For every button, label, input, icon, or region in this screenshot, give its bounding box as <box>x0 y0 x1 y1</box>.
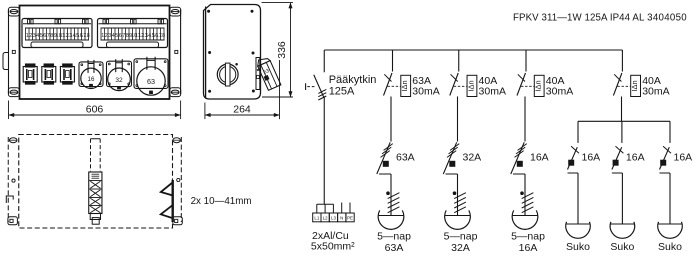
dimension 264 line <box>205 114 280 116</box>
svg-text:18: 18 <box>159 33 165 39</box>
bottom view left hook <box>6 196 13 203</box>
svg-text:16A: 16A <box>582 151 601 163</box>
RCD 3 40A 30mA <box>525 50 527 72</box>
appliance inlet 63A (tilted) <box>256 56 281 91</box>
bottom view screw right <box>177 178 180 181</box>
svg-text:63: 63 <box>147 77 155 86</box>
socket outlet Suko no.3 <box>669 173 671 224</box>
mounting tab bottom-left with slot <box>8 88 19 97</box>
svg-text:8: 8 <box>126 33 129 39</box>
mounting tab top-right with slot <box>170 7 181 16</box>
socket outlet 5-nap 63A <box>390 174 392 216</box>
wire main switch to supply terminals <box>323 97 325 204</box>
svg-text:63A: 63A <box>385 242 404 254</box>
cable entry wedge 1 <box>161 183 173 196</box>
bottom view foot bottom-left <box>8 217 18 225</box>
left side boss <box>3 53 9 70</box>
svg-text:L2: L2 <box>323 216 328 221</box>
DIN window top rail <box>23 23 91 25</box>
svg-text:IΔn: IΔn <box>534 80 543 91</box>
svg-text:336: 336 <box>276 41 288 59</box>
CEE socket 16A <box>79 62 103 87</box>
mounting tab bottom-right with slot <box>170 88 181 97</box>
wire sub-bus drop 1 <box>577 121 579 143</box>
main bus wire <box>324 49 622 51</box>
svg-text:5x50mm²: 5x50mm² <box>311 241 355 253</box>
terminal block body <box>89 172 102 214</box>
svg-text:2x 10—41mm: 2x 10—41mm <box>191 196 252 207</box>
dimension 606 witness lines <box>8 101 10 120</box>
panel socket 3 <box>60 67 74 83</box>
breaker number strip <box>25 27 89 29</box>
enclosure side view outline <box>204 5 261 100</box>
side view screws <box>208 10 210 12</box>
wire sub-bus drop 3 <box>669 121 671 143</box>
terminal block lower stem <box>90 214 100 220</box>
svg-text:IΔn: IΔn <box>630 80 639 91</box>
svg-text:Suko: Suko <box>658 241 682 253</box>
svg-text:30mA: 30mA <box>642 85 669 97</box>
MCB 1-pole 16A no.3 <box>660 147 670 169</box>
main switch Paakytkin 125A <box>314 75 324 98</box>
svg-text:32A: 32A <box>463 151 482 163</box>
svg-text:125A: 125A <box>329 86 355 98</box>
RCD 2 40A 30mA <box>458 50 460 72</box>
panel socket 1 <box>23 67 37 83</box>
cable entry wedge 2 <box>161 205 173 218</box>
svg-text:3404050: 3404050 <box>647 13 687 24</box>
socket outlet 5-nap 32A <box>457 174 459 216</box>
RCD 1 63A 30mA <box>392 50 394 72</box>
panel socket 2 <box>42 67 56 83</box>
enclosure bottom view outline (dashed) <box>19 135 173 229</box>
svg-text:606: 606 <box>86 104 104 116</box>
bottom view foot bottom-right <box>173 217 183 225</box>
side view left wall <box>205 7 207 99</box>
MCB 3-pole 32A <box>443 142 456 174</box>
wire RCD1 to MCB 63A <box>390 97 392 142</box>
svg-text:Suko: Suko <box>566 241 590 253</box>
svg-text:FPKV 311—1W 125A IP44 AL: FPKV 311—1W 125A IP44 AL <box>513 13 645 24</box>
svg-text:3: 3 <box>33 33 36 39</box>
RCD 4 40A 30mA <box>621 50 623 72</box>
CEE socket 63A <box>134 59 168 89</box>
svg-text:IΔn: IΔn <box>466 80 475 91</box>
svg-text:IΔn: IΔn <box>400 80 409 91</box>
svg-text:18: 18 <box>84 33 90 39</box>
MCB 1-pole 16A no.2 <box>612 147 622 169</box>
bottom view left flange (dashed) <box>7 137 9 222</box>
DIN rail clips <box>103 19 105 24</box>
svg-text:L3: L3 <box>331 216 336 221</box>
socket group sub-bus <box>578 120 670 122</box>
DIN rail clips <box>28 19 30 24</box>
svg-text:1: 1 <box>26 33 29 39</box>
right mounting flange edge <box>180 10 182 95</box>
DIN breaker window frame <box>22 19 92 48</box>
dimension 336 line <box>290 3 292 97</box>
svg-text:16: 16 <box>88 76 95 83</box>
wire bus to main switch <box>323 50 325 72</box>
svg-text:4: 4 <box>112 33 115 39</box>
bottom view right flange (dashed) <box>180 137 182 222</box>
supply terminal block L1 L2 L3 N PE <box>317 203 334 205</box>
svg-text:264: 264 <box>233 104 251 116</box>
socket outlet 5-nap 16A <box>524 174 526 216</box>
svg-text:63A: 63A <box>396 151 415 163</box>
svg-text:16A: 16A <box>519 242 538 254</box>
svg-text:L1: L1 <box>314 216 319 221</box>
MCB 3-pole 16A <box>511 142 524 174</box>
svg-text:2: 2 <box>105 33 108 39</box>
svg-text:5—nap: 5—nap <box>377 231 411 243</box>
enclosure front view outline <box>20 6 170 100</box>
svg-text:5: 5 <box>40 33 43 39</box>
svg-text:16A: 16A <box>626 151 645 163</box>
terminal rail stem (dashed) <box>90 139 92 172</box>
dimension 336 witness lines <box>262 2 294 4</box>
svg-text:PE: PE <box>347 216 353 221</box>
svg-text:16A: 16A <box>530 151 549 163</box>
wire sub-bus drop 2 <box>621 121 623 143</box>
flange screw right <box>175 50 178 53</box>
svg-text:Suko: Suko <box>610 241 634 253</box>
socket outlet Suko no.1 <box>577 173 579 224</box>
bottom view tab top-left <box>9 138 17 143</box>
terminal block cell marks <box>90 181 100 188</box>
svg-text:7: 7 <box>47 33 50 39</box>
MCB 3-pole 63A <box>377 142 390 174</box>
svg-text:30mA: 30mA <box>479 85 506 97</box>
dimension 606 line <box>9 114 181 116</box>
svg-text:16A: 16A <box>674 151 693 163</box>
cable entry edge line <box>171 180 173 222</box>
left mounting flange edge <box>8 10 10 95</box>
svg-text:5—nap: 5—nap <box>511 231 545 243</box>
svg-text:32A: 32A <box>451 242 470 254</box>
wire RCD3 to MCB 16A <box>524 97 526 142</box>
svg-text:32: 32 <box>115 77 123 84</box>
dimension 264 witness lines <box>204 103 206 120</box>
CEE socket 32A <box>107 61 132 86</box>
DIN window bottom tab <box>31 42 83 48</box>
wire RCD2 to MCB 32A <box>457 97 459 142</box>
svg-text:5—nap: 5—nap <box>444 231 478 243</box>
svg-text:30mA: 30mA <box>412 85 439 97</box>
side inlet mounting plate <box>256 58 260 90</box>
svg-text:N: N <box>340 216 343 221</box>
bottom view tab top-right <box>173 138 181 143</box>
socket outlet Suko no.2 <box>621 173 623 224</box>
main switch knob <box>217 64 238 85</box>
DIN window bottom tab <box>107 42 159 48</box>
wire RCD4 to socket sub-bus <box>621 97 623 122</box>
MCB 1-pole 16A no.1 <box>568 147 578 169</box>
DIN window top rail <box>99 23 167 25</box>
breaker number strip <box>101 27 165 29</box>
svg-text:6: 6 <box>119 33 122 39</box>
mounting tab top-left with slot <box>8 7 19 16</box>
svg-text:Pääkytkin: Pääkytkin <box>329 74 377 86</box>
flange screw left <box>12 50 15 53</box>
DIN breaker window frame <box>98 19 168 48</box>
svg-text:30mA: 30mA <box>546 85 573 97</box>
bottom view screw left <box>12 179 15 182</box>
